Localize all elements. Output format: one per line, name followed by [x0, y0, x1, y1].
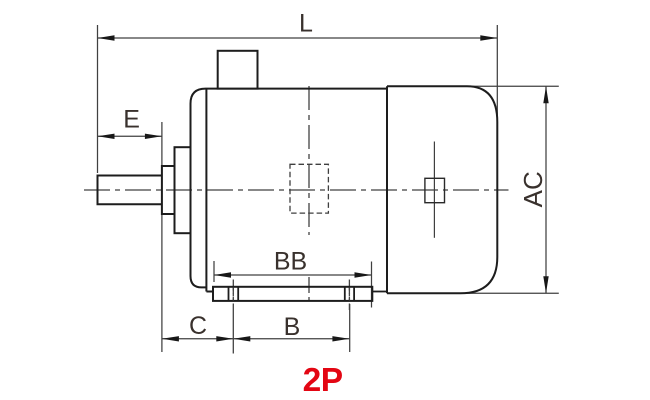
svg-text:E: E — [123, 106, 140, 134]
rear square vertical mark — [433, 142, 435, 238]
vertical centerline lower — [308, 277, 310, 301]
svg-text:B: B — [284, 313, 301, 341]
foot slot line left b — [237, 287, 239, 301]
dimension BB arrow left — [214, 272, 231, 277]
foot bolt centerline left — [232, 280, 234, 305]
foot bolt centerline right — [348, 280, 350, 311]
rear square — [425, 178, 445, 202]
svg-text:BB: BB — [274, 248, 307, 276]
dimension AC line — [545, 86, 547, 293]
terminal box — [218, 51, 258, 89]
shaft shoulder ring 2 — [175, 147, 191, 233]
dimension E arrow right — [145, 134, 162, 139]
body bottom step left — [206, 291, 213, 293]
dimension C-B extension right — [349, 304, 351, 352]
dimension BB arrow right — [355, 272, 372, 277]
dimension E line — [98, 135, 162, 137]
dimension BB extension right — [371, 262, 373, 308]
foot slot line left a — [228, 287, 230, 301]
horizontal centerline — [84, 189, 509, 191]
dimension AC arrow top — [543, 86, 548, 103]
dimension L arrow right — [480, 35, 497, 40]
shaft — [98, 176, 162, 205]
dimension L arrow left — [98, 35, 115, 40]
svg-text:C: C — [189, 312, 207, 340]
dimension AC extension bottom — [455, 292, 559, 294]
foot plate — [213, 287, 372, 301]
foot bolt centerline left lower — [232, 304, 234, 354]
foot slot line right b — [353, 287, 355, 301]
dashed inspection square — [290, 164, 328, 213]
foot bolt hidden dashes right — [348, 288, 350, 301]
dimension C arrow right — [216, 336, 233, 341]
dimension C-B line — [162, 338, 350, 340]
svg-text:L: L — [299, 10, 313, 38]
dimension C arrow left — [162, 336, 179, 341]
dimension L line — [98, 37, 498, 39]
dimension L extension right — [496, 25, 498, 120]
dimension B arrow left — [233, 336, 250, 341]
body/rear boundary — [386, 86, 388, 293]
dimension AC arrow bottom — [543, 276, 548, 293]
dimension E arrow left — [98, 134, 115, 139]
dimension E extension right — [161, 122, 163, 352]
dimension BB line — [214, 274, 372, 276]
svg-text:2P: 2P — [303, 362, 343, 399]
foot bolt hidden dashes left — [232, 288, 234, 301]
dimension B arrow right — [332, 336, 349, 341]
foot slot line right a — [344, 287, 346, 301]
front end-shield profile — [191, 89, 207, 288]
dimension BB extension left — [213, 261, 215, 282]
rear housing outline — [387, 86, 497, 293]
body bottom stub right — [372, 291, 387, 293]
vertical centerline upper — [308, 86, 310, 235]
shaft shoulder ring 1 — [162, 166, 175, 214]
dimension L extension left — [97, 25, 99, 173]
body top edge — [206, 88, 388, 90]
body left edge — [205, 89, 207, 292]
dimension AC extension top — [460, 85, 559, 87]
svg-text:AC: AC — [518, 171, 548, 207]
